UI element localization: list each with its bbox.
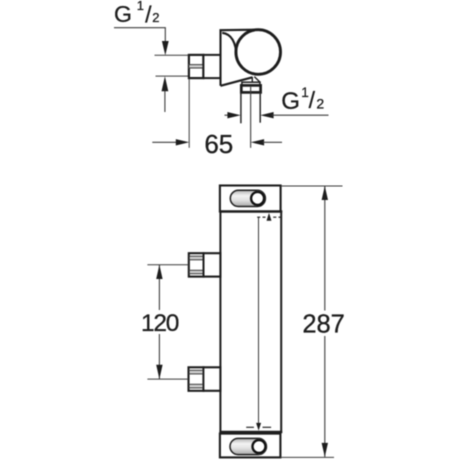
svg-text:1: 1 bbox=[137, 0, 144, 13]
upper inlet hex nut (front view) bbox=[189, 252, 221, 277]
leader line from G1/2 top-left bbox=[114, 28, 165, 42]
extension line inlet top bbox=[155, 54, 190, 56]
svg-text:/: / bbox=[145, 1, 152, 27]
label G1/2 top-left bbox=[114, 0, 160, 27]
svg-text:G: G bbox=[281, 88, 300, 115]
label G1/2 right bbox=[281, 85, 324, 115]
outlet centre extension line bbox=[250, 87, 252, 148]
svg-text:1: 1 bbox=[301, 85, 309, 100]
svg-text:2: 2 bbox=[152, 10, 159, 25]
65 dimension bbox=[152, 79, 282, 148]
G1/2 right dimension arrows bbox=[225, 112, 329, 118]
120 dimension bbox=[147, 265, 188, 379]
body bar bbox=[219, 212, 282, 433]
outlet nut bbox=[241, 85, 260, 92]
bottom cap slot bbox=[230, 438, 267, 454]
top cap slot bbox=[230, 190, 265, 206]
arrow down to inlet top edge bbox=[162, 41, 169, 55]
svg-text:/: / bbox=[309, 87, 316, 113]
svg-text:2: 2 bbox=[316, 96, 324, 112]
internal dimension line bbox=[246, 213, 281, 431]
svg-text:120: 120 bbox=[141, 310, 179, 337]
287 dimension bbox=[280, 186, 342, 457]
svg-text:G: G bbox=[114, 1, 132, 27]
valve body (escutcheon horn, side view) bbox=[221, 30, 261, 86]
top cap bbox=[220, 186, 281, 212]
escutcheon flare curve bbox=[222, 33, 236, 57]
svg-text:287: 287 bbox=[302, 310, 345, 338]
arrow up to inlet bottom edge with tail bbox=[162, 76, 169, 112]
knob circle (handle, side view) bbox=[236, 30, 281, 75]
bottom cap bbox=[220, 434, 281, 458]
outlet collar bbox=[242, 82, 260, 85]
outlet pipe bbox=[241, 93, 260, 124]
lower inlet hex nut (front view) bbox=[189, 366, 221, 392]
shank connecting nut to body bbox=[203, 55, 220, 78]
hex nut inlet (side view) bbox=[188, 55, 203, 78]
svg-text:65: 65 bbox=[204, 129, 233, 159]
extension line inlet bottom bbox=[156, 75, 190, 77]
